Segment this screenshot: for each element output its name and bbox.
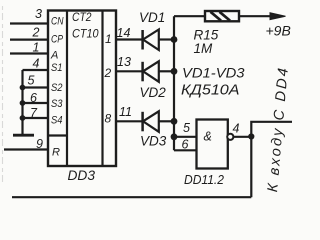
IC DD3 body bbox=[48, 11, 116, 167]
wire pin2 CP bbox=[10, 38, 48, 40]
junction VD2 bbox=[171, 68, 178, 75]
wire R15 to +9V bbox=[239, 15, 271, 17]
svg-text:VD1: VD1 bbox=[139, 10, 165, 25]
svg-text:DD11.2: DD11.2 bbox=[184, 172, 225, 187]
wire pin9 R bbox=[4, 148, 48, 150]
arrow +9V bbox=[270, 13, 286, 20]
svg-text:КД510А: КД510А bbox=[181, 83, 240, 99]
svg-text:&: & bbox=[204, 130, 212, 144]
svg-text:3: 3 bbox=[35, 7, 42, 21]
resistor R15 bbox=[205, 11, 239, 21]
svg-text:4: 4 bbox=[33, 57, 40, 71]
junction S3 bbox=[20, 100, 26, 106]
svg-text:VD3: VD3 bbox=[140, 134, 167, 149]
junction gate pin5 bbox=[171, 133, 178, 140]
svg-text:8: 8 bbox=[105, 112, 112, 126]
ground bbox=[13, 134, 34, 137]
svg-text:5: 5 bbox=[28, 74, 35, 88]
svg-text:1M: 1M bbox=[194, 41, 214, 56]
wire pin14 bbox=[116, 38, 143, 40]
svg-text:S3: S3 bbox=[51, 98, 63, 110]
junction VD3 bbox=[171, 118, 178, 125]
wire to DD4 down bbox=[250, 137, 252, 198]
svg-text:A: A bbox=[50, 50, 58, 62]
junction gate output bbox=[248, 133, 254, 139]
svg-text:1: 1 bbox=[105, 32, 112, 46]
wire bus to gate pin6 bbox=[174, 149, 197, 151]
svg-text:14: 14 bbox=[117, 26, 131, 40]
diode VD3 bbox=[143, 111, 174, 132]
svg-text:R: R bbox=[52, 147, 60, 159]
page edge line bbox=[2, 6, 4, 182]
IC DD3 left field divider bbox=[66, 11, 68, 167]
wire pin11 bbox=[116, 120, 143, 122]
svg-text:S1: S1 bbox=[51, 62, 63, 74]
svg-text:2: 2 bbox=[104, 66, 112, 80]
svg-text:5: 5 bbox=[183, 121, 190, 135]
wire pin6 S3 bbox=[23, 102, 49, 104]
svg-text:+9В: +9В bbox=[266, 23, 291, 39]
svg-text:VD2: VD2 bbox=[140, 85, 167, 100]
svg-text:7: 7 bbox=[30, 106, 38, 120]
wire pin1 A bbox=[10, 52, 48, 54]
wire bottom return bbox=[12, 196, 251, 198]
wire pin5 S2 bbox=[23, 86, 49, 88]
junction S4 bbox=[20, 115, 26, 121]
IC DD3 right field divider bbox=[101, 11, 103, 167]
svg-text:6: 6 bbox=[182, 138, 189, 152]
wire to DD4 up bbox=[251, 122, 292, 137]
svg-text:CN: CN bbox=[51, 16, 64, 28]
wire pin4 S1 bbox=[23, 69, 49, 71]
wire gate output bbox=[233, 136, 251, 138]
svg-text:1: 1 bbox=[33, 41, 40, 55]
svg-text:4: 4 bbox=[233, 122, 240, 136]
wire bus to gate pin5 bbox=[174, 136, 197, 138]
wire bus to R15 bbox=[174, 15, 205, 17]
svg-text:CT10: CT10 bbox=[72, 27, 99, 41]
common cathode bus bbox=[173, 16, 175, 150]
svg-text:11: 11 bbox=[119, 105, 132, 119]
junction S2 bbox=[20, 85, 26, 91]
svg-text:CT2: CT2 bbox=[72, 10, 92, 24]
svg-text:13: 13 bbox=[117, 55, 131, 69]
junction VD1 bbox=[171, 36, 178, 43]
svg-text:2: 2 bbox=[32, 26, 40, 40]
IC DD3 left field section divider bbox=[48, 134, 67, 136]
svg-text:К входу С DD4: К входу С DD4 bbox=[265, 65, 292, 192]
diode VD2 bbox=[143, 61, 174, 82]
NAND gate DD11.2 bbox=[197, 120, 234, 169]
svg-text:S4: S4 bbox=[51, 115, 63, 127]
svg-text:CP: CP bbox=[51, 34, 64, 46]
svg-text:S2: S2 bbox=[51, 82, 63, 94]
svg-text:VD1-VD3: VD1-VD3 bbox=[182, 65, 245, 81]
wire pin13 bbox=[116, 70, 143, 72]
svg-text:DD3: DD3 bbox=[68, 168, 96, 183]
wire pin3 CN bbox=[10, 22, 48, 24]
svg-text:6: 6 bbox=[30, 91, 37, 105]
svg-text:9: 9 bbox=[36, 137, 43, 151]
ground bus vertical bbox=[21, 70, 23, 134]
wire pin7 S4 bbox=[23, 117, 49, 119]
diode VD1 bbox=[143, 30, 174, 51]
